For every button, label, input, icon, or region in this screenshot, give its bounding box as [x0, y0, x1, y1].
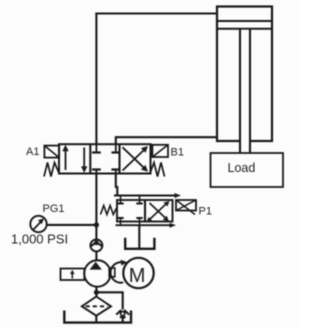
- Load box: [211, 153, 284, 187]
- valve P1 body (2 envelopes): [117, 200, 173, 222]
- node junction drain: [94, 290, 99, 295]
- pump P: [84, 260, 110, 286]
- cylinder piston: [217, 21, 272, 29]
- tank T1 (main): [64, 311, 131, 323]
- label PG1: [43, 203, 65, 215]
- svg-text:Load: Load: [228, 161, 256, 175]
- label 1,000 PSI: [11, 232, 68, 247]
- valve V1 body (3 position envelopes): [59, 144, 151, 173]
- wire T-line (valve to P1 top pipe): [116, 174, 118, 196]
- tank T2 (under P1): [125, 238, 154, 249]
- svg-text:P1: P1: [199, 206, 212, 218]
- wire drain to relief: [96, 292, 122, 309]
- label A1: [26, 146, 39, 158]
- drain check valve (into tank): [116, 310, 129, 322]
- wire P-line (valve to junction): [95, 174, 97, 240]
- wire pump outlet down: [95, 287, 97, 297]
- svg-text:M: M: [129, 265, 146, 287]
- valve V1 left envelope arrows: [62, 145, 87, 173]
- svg-text:B1: B1: [171, 147, 184, 159]
- wire A-line horizontal to cylinder cap: [95, 12, 218, 14]
- node junction PG1: [94, 222, 99, 227]
- solenoid P1: [176, 200, 196, 215]
- filter F1: [82, 297, 111, 316]
- label P1: [199, 206, 212, 218]
- valve V1 center envelope blocked ports (T symbols): [92, 144, 120, 173]
- svg-text:1,000 PSI: 1,000 PSI: [11, 232, 68, 247]
- motor M: [123, 258, 153, 288]
- wire gauge line: [47, 224, 97, 226]
- valve P1 right envelope crossed arrows: [147, 201, 170, 223]
- wire filter to tank: [95, 316, 97, 323]
- valve V1 right envelope crossed arrows: [123, 146, 149, 172]
- wire check valve to pump: [95, 251, 97, 261]
- pump compensator box with arrow: [61, 269, 85, 281]
- valve P1 left envelope blocked ports: [117, 196, 142, 226]
- svg-text:A1: A1: [26, 146, 39, 158]
- cylinder C1 body: [217, 7, 272, 142]
- P1 top pipe with arrow: [114, 193, 181, 198]
- check valve CV1: [90, 239, 102, 251]
- wire P1 to tank: [138, 225, 140, 248]
- svg-text:PG1: PG1: [43, 203, 65, 215]
- label B1: [171, 147, 184, 159]
- P1 bottom pipe with arrow: [116, 223, 177, 228]
- wire B-line from cylinder rod end to valve B port: [116, 137, 218, 144]
- gauge PG1: [30, 216, 46, 232]
- cylinder rod: [240, 29, 250, 153]
- wire A-line vertical (valve A port to top): [95, 13, 97, 145]
- solenoid A1: [44, 146, 59, 158]
- spring P1 (left): [101, 206, 117, 215]
- coupling (shaft with rotation arc): [109, 260, 127, 283]
- spring B1 (right): [151, 163, 165, 177]
- spring A1 (left): [44, 163, 59, 177]
- solenoid B1: [152, 145, 168, 157]
